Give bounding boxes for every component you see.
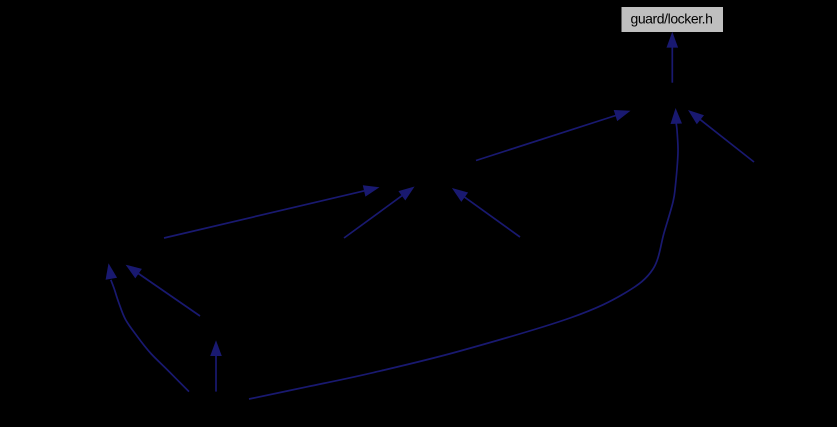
edge E4: center node to top node <box>476 110 631 161</box>
node guard/locker.h <box>621 7 724 33</box>
edge E2: lower-left node to center node <box>344 187 415 239</box>
svg-text:guard/locker.h: guard/locker.h <box>630 11 712 27</box>
edge E8: bottom node to left node (curved) <box>106 263 189 391</box>
edge E3: lower-mid node to center node <box>452 188 520 237</box>
edge E1: left node to center node <box>164 185 380 238</box>
edge E7: bottom node to second-level node (vertical) <box>210 340 222 391</box>
edge E5: right node to top node <box>688 110 754 162</box>
edge E6: second-level bottom node to left node <box>126 265 200 316</box>
edge E10: top node to guard/locker.h <box>667 32 679 83</box>
edge E9: bottom node to top node (long curve) <box>249 108 682 399</box>
